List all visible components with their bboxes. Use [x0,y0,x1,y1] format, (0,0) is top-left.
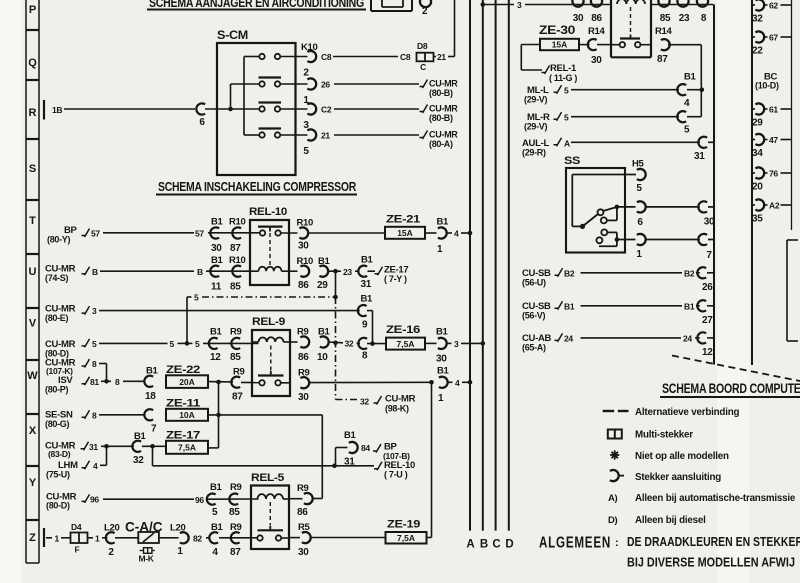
svg-text:P: P [29,4,36,16]
svg-text:K10: K10 [301,42,318,53]
svg-text:Niet op alle modellen: Niet op alle modellen [635,451,729,462]
svg-text:B1: B1 [361,294,374,305]
svg-text:7,5A: 7,5A [397,533,415,543]
svg-text:CU-MR: CU-MR [429,104,458,114]
svg-text:ZE-11: ZE-11 [166,398,200,410]
svg-text:ZE-22: ZE-22 [166,364,200,376]
svg-text:87: 87 [657,54,668,65]
svg-text:3: 3 [517,0,522,10]
svg-text:Q: Q [28,57,37,69]
svg-text:23: 23 [679,13,690,24]
svg-text:5: 5 [195,339,200,349]
svg-text:ZE-21: ZE-21 [386,214,420,226]
svg-text:(10-D): (10-D) [755,81,779,91]
svg-text:REL-10: REL-10 [249,206,287,218]
svg-text:23: 23 [343,267,352,277]
svg-text:B: B [92,267,98,277]
svg-text:(29-R): (29-R) [522,148,546,158]
svg-text:10: 10 [317,352,328,363]
svg-text:1: 1 [437,244,443,255]
svg-text:7: 7 [706,250,712,261]
svg-text:12: 12 [210,352,221,363]
svg-text:82: 82 [193,534,202,544]
svg-text:5: 5 [564,86,569,96]
svg-text:SCHEMA INSCHAKELING COMPRESSOR: SCHEMA INSCHAKELING COMPRESSOR [158,180,356,194]
svg-text:18: 18 [145,391,156,402]
svg-text:(65-A): (65-A) [522,342,546,352]
svg-text:ZE-17: ZE-17 [166,429,200,441]
svg-text:( 11-G ): ( 11-G ) [549,73,577,83]
svg-text:1: 1 [177,546,183,557]
svg-text:( 7-Y ): ( 7-Y ) [384,274,407,284]
svg-text:87: 87 [232,392,243,403]
svg-text:B2: B2 [684,269,695,279]
svg-text:1: 1 [55,534,60,544]
svg-text:3: 3 [92,306,97,316]
svg-text:86: 86 [591,13,602,24]
svg-text:(98-K): (98-K) [385,404,409,414]
svg-text:5: 5 [636,183,642,194]
svg-text:ALGEMEEN: ALGEMEEN [539,535,611,552]
svg-text:R9: R9 [298,368,310,379]
svg-text:32: 32 [345,339,354,349]
svg-text:32: 32 [360,397,369,407]
svg-text:REL-9: REL-9 [252,316,285,328]
svg-text:47: 47 [769,135,778,145]
svg-text:8: 8 [92,359,97,369]
svg-text:3: 3 [454,339,459,349]
svg-text:A: A [564,139,570,149]
svg-text:B1: B1 [684,72,697,83]
svg-text:(56-V): (56-V) [522,310,546,320]
svg-text:2: 2 [422,6,428,17]
svg-text:REL-5: REL-5 [251,472,284,484]
svg-text:B2: B2 [564,268,575,278]
svg-text:30: 30 [298,547,309,558]
svg-text:Alleen bij diesel: Alleen bij diesel [635,515,706,526]
svg-text:W: W [27,370,38,382]
svg-text:BIJ DIVERSE MODELLEN AFWIJ: BIJ DIVERSE MODELLEN AFWIJ [627,556,795,570]
svg-text:(80-G): (80-G) [45,419,70,429]
svg-text:D): D) [608,515,618,526]
svg-text:B1: B1 [318,256,331,267]
svg-text:(80-P): (80-P) [45,384,69,394]
svg-text:26: 26 [702,282,713,293]
svg-text:24: 24 [683,334,692,344]
svg-text:R10: R10 [229,255,246,266]
svg-text:B1: B1 [211,522,224,533]
svg-text:SCHEMA BOORD COMPUTER: SCHEMA BOORD COMPUTER [662,381,800,396]
svg-text:4: 4 [212,547,218,558]
svg-text:67: 67 [769,33,778,43]
svg-text:(56-U): (56-U) [522,277,546,287]
svg-text:R: R [29,107,37,119]
svg-text:8: 8 [701,13,707,24]
svg-text:7,5A: 7,5A [178,443,196,453]
svg-text:29: 29 [317,280,328,291]
svg-text:R5: R5 [298,522,311,533]
svg-text:15A: 15A [552,40,568,50]
svg-text:(80-D): (80-D) [46,501,70,511]
svg-text:9: 9 [362,320,368,331]
svg-text:C: C [420,62,426,72]
svg-text:8: 8 [92,410,97,420]
svg-text:B1: B1 [211,255,224,266]
svg-text:31: 31 [694,151,705,162]
svg-text:1: 1 [95,534,100,544]
svg-text:5: 5 [212,507,218,518]
svg-text:21: 21 [437,52,446,62]
svg-text:B1: B1 [211,217,224,228]
svg-text:30: 30 [298,392,309,403]
svg-text:R9: R9 [230,522,242,533]
svg-text:D: D [505,539,513,551]
svg-text:84: 84 [361,443,370,453]
svg-text:12: 12 [702,347,713,358]
svg-text:10A: 10A [179,410,195,420]
svg-text:R10: R10 [229,217,246,228]
svg-text:B1: B1 [437,366,450,377]
svg-text:21: 21 [321,131,330,141]
svg-text:A): A) [608,493,618,504]
svg-text:R9: R9 [230,327,242,338]
svg-text:T: T [29,215,36,227]
svg-text:M-K: M-K [139,554,155,564]
svg-text:B1: B1 [344,430,357,441]
svg-text:30: 30 [573,13,584,24]
svg-text:Z: Z [29,532,36,544]
svg-text:A: A [466,539,474,551]
svg-text:4: 4 [93,461,98,471]
svg-text:(74-S): (74-S) [45,273,69,283]
svg-text:20A: 20A [179,377,195,387]
svg-text:ZE-30: ZE-30 [539,25,575,37]
svg-text:5: 5 [303,146,309,157]
svg-text:57: 57 [91,229,100,239]
svg-text:30: 30 [298,241,309,252]
svg-text:Alleen bij automatische-transm: Alleen bij automatische-transmissie [635,493,796,504]
svg-text:24: 24 [564,333,573,343]
svg-text:15A: 15A [397,228,413,238]
svg-text:(80-B): (80-B) [429,113,453,123]
svg-text:1: 1 [438,393,444,404]
svg-text:5: 5 [564,113,569,123]
svg-text:V: V [29,318,37,330]
svg-text:Stekker aansluiting: Stekker aansluiting [635,472,721,483]
svg-text:26: 26 [321,80,330,90]
svg-text:A2: A2 [769,201,780,211]
svg-text:86: 86 [298,280,309,291]
svg-text:D4: D4 [71,522,82,532]
svg-text:B1: B1 [210,327,223,338]
svg-text:8: 8 [115,377,120,387]
svg-text:S: S [29,163,36,175]
svg-text:30: 30 [436,354,447,365]
svg-text:27: 27 [702,315,713,326]
svg-text:R9: R9 [297,483,309,494]
svg-text::: : [615,537,618,549]
svg-text:C2: C2 [321,105,332,115]
svg-text:5: 5 [170,339,175,349]
svg-text:7: 7 [151,424,157,435]
svg-text:4: 4 [455,378,460,388]
svg-text:30: 30 [704,217,715,228]
svg-text:86: 86 [298,352,309,363]
svg-text:11: 11 [211,282,222,293]
svg-text:B1: B1 [361,255,374,266]
svg-text:96: 96 [90,495,99,505]
svg-text:31: 31 [361,279,372,290]
svg-text:(80-A): (80-A) [429,139,453,149]
svg-text:7,5A: 7,5A [397,339,415,349]
svg-text:57: 57 [195,229,204,239]
svg-text:85: 85 [660,13,671,24]
svg-text:F: F [75,545,80,555]
svg-text:B: B [480,539,488,551]
svg-text:R14: R14 [655,26,673,37]
svg-text:(80-B): (80-B) [429,88,453,98]
svg-text:76: 76 [769,169,778,179]
svg-text:DE DRAADKLEUREN EN STEKKER: DE DRAADKLEUREN EN STEKKER [627,535,800,549]
svg-text:29: 29 [752,118,763,129]
svg-text:B: B [197,267,203,277]
svg-text:H5: H5 [632,159,645,170]
svg-text:1B: 1B [52,105,62,115]
svg-text:SS: SS [564,155,580,167]
svg-text:81: 81 [90,377,99,387]
svg-text:2: 2 [303,68,309,79]
svg-text:(80-E): (80-E) [45,313,69,323]
svg-text:S-CM: S-CM [217,28,248,42]
svg-text:L20: L20 [104,523,119,534]
svg-text:B1: B1 [210,482,223,493]
svg-text:8: 8 [362,351,368,362]
svg-text:85: 85 [230,352,241,363]
svg-text:R9: R9 [230,482,242,493]
svg-text:35: 35 [752,214,763,225]
svg-text:ZE-19: ZE-19 [387,519,420,531]
svg-text:B1: B1 [564,301,575,311]
svg-text:( 7-U ): ( 7-U ) [384,469,408,479]
svg-text:Alternatieve verbinding: Alternatieve verbinding [635,407,739,418]
svg-text:62: 62 [769,1,778,11]
svg-text:(83-D): (83-D) [48,449,71,459]
svg-text:D8: D8 [417,41,428,51]
svg-text:87: 87 [230,547,241,558]
svg-text:U: U [29,266,37,278]
svg-text:X: X [29,425,37,437]
svg-text:85: 85 [230,282,241,293]
svg-text:ZE-16: ZE-16 [386,324,420,336]
svg-text:87: 87 [230,243,241,254]
svg-text:Multi-stekker: Multi-stekker [635,430,693,441]
svg-text:6: 6 [637,217,643,228]
svg-text:R9: R9 [233,367,245,378]
svg-text:C8: C8 [400,52,411,62]
svg-text:32: 32 [133,455,144,466]
svg-text:C8: C8 [321,52,332,62]
svg-text:5: 5 [194,293,199,303]
svg-text:CU-MR: CU-MR [429,130,458,140]
svg-text:6: 6 [199,117,205,128]
svg-text:85: 85 [229,507,240,518]
svg-text:B1: B1 [318,327,331,338]
svg-text:20: 20 [752,182,763,193]
svg-text:R10: R10 [297,256,314,267]
svg-text:C: C [492,539,500,551]
svg-text:5: 5 [684,125,690,136]
svg-text:4: 4 [684,98,690,109]
svg-text:96: 96 [195,495,204,505]
svg-text:B1: B1 [146,366,159,377]
svg-text:R14: R14 [588,26,606,37]
svg-text:(75-U): (75-U) [46,469,70,479]
svg-text:2: 2 [108,547,114,558]
svg-text:R10: R10 [297,218,314,229]
svg-text:61: 61 [769,105,778,115]
svg-text:30: 30 [591,55,602,66]
svg-text:(29-V): (29-V) [524,95,548,105]
svg-text:B1: B1 [684,302,695,312]
svg-text:31: 31 [89,442,98,452]
svg-text:(80-Y): (80-Y) [47,235,71,245]
svg-text:32: 32 [752,14,763,25]
svg-text:34: 34 [752,148,763,159]
svg-text:22: 22 [752,46,763,57]
svg-text:Y: Y [29,477,37,489]
svg-text:CU-MR: CU-MR [429,79,458,89]
svg-text:B1: B1 [134,431,147,442]
svg-text:(29-V): (29-V) [524,122,548,132]
svg-text:B1: B1 [436,327,449,338]
svg-text:5: 5 [92,339,97,349]
svg-text:30: 30 [211,243,222,254]
svg-text:R9: R9 [297,327,309,338]
svg-text:4: 4 [454,229,459,239]
svg-text:86: 86 [297,507,308,518]
svg-text:1: 1 [636,249,642,260]
svg-text:B1: B1 [437,217,450,228]
